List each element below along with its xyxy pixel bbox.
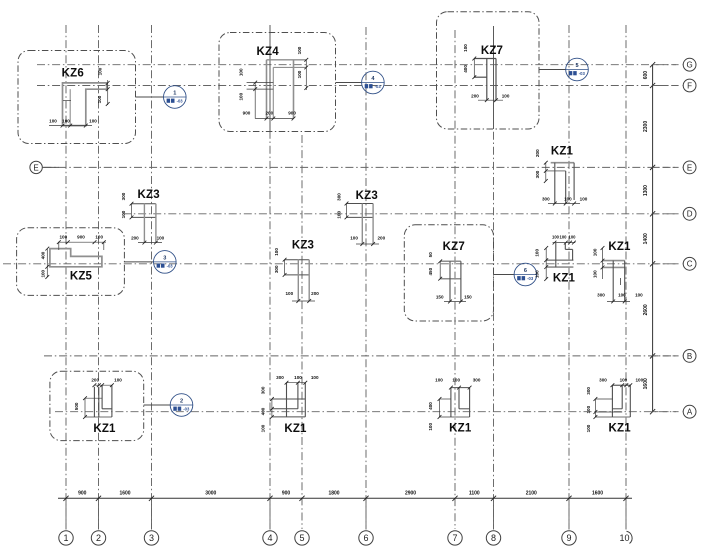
- svg-text:200: 200: [131, 235, 139, 240]
- svg-text:-03: -03: [183, 406, 190, 411]
- svg-text:100: 100: [435, 378, 443, 383]
- svg-text:300: 300: [276, 375, 284, 380]
- svg-text:1400: 1400: [643, 233, 649, 244]
- svg-text:KZ1: KZ1: [284, 423, 307, 435]
- svg-text:100: 100: [114, 378, 122, 383]
- svg-text:7: 7: [452, 533, 457, 543]
- svg-text:8: 8: [491, 533, 496, 543]
- svg-text:2600: 2600: [643, 304, 649, 315]
- svg-text:200: 200: [265, 111, 273, 116]
- svg-text:2900: 2900: [405, 490, 416, 496]
- svg-text:2300: 2300: [643, 121, 649, 132]
- svg-text:100: 100: [350, 235, 358, 240]
- svg-text:400: 400: [261, 407, 266, 415]
- svg-text:300: 300: [586, 387, 591, 395]
- svg-text:100: 100: [294, 375, 302, 380]
- svg-text:100: 100: [535, 270, 540, 278]
- svg-text:300: 300: [473, 378, 481, 383]
- svg-text:100: 100: [157, 235, 165, 240]
- svg-text:100: 100: [239, 68, 244, 76]
- svg-text:-03: -03: [167, 263, 174, 268]
- svg-text:1600: 1600: [643, 378, 649, 389]
- svg-text:2100: 2100: [526, 490, 537, 496]
- svg-text:500: 500: [74, 402, 79, 410]
- svg-text:100: 100: [593, 270, 598, 278]
- svg-text:100: 100: [618, 292, 626, 297]
- svg-text:300: 300: [535, 170, 540, 178]
- svg-text:100: 100: [97, 95, 102, 103]
- svg-text:-03: -03: [527, 276, 534, 281]
- svg-text:150: 150: [436, 295, 444, 300]
- svg-text:900: 900: [288, 111, 296, 116]
- svg-text:100: 100: [239, 92, 244, 100]
- svg-text:300: 300: [597, 292, 605, 297]
- svg-text:100: 100: [121, 210, 126, 218]
- svg-text:100: 100: [89, 118, 97, 123]
- svg-text:100: 100: [452, 378, 460, 383]
- svg-text:E: E: [687, 163, 692, 172]
- svg-text:200: 200: [91, 378, 99, 383]
- svg-text:KZ1: KZ1: [608, 241, 631, 253]
- svg-text:100: 100: [261, 424, 266, 432]
- svg-text:450: 450: [428, 267, 433, 275]
- svg-text:100: 100: [274, 248, 279, 256]
- svg-text:1600: 1600: [119, 490, 130, 496]
- svg-text:KZ7: KZ7: [443, 241, 465, 253]
- svg-text:C: C: [687, 260, 693, 269]
- svg-text:B: B: [687, 352, 692, 361]
- svg-text:100: 100: [297, 46, 302, 54]
- svg-text:4: 4: [267, 533, 272, 543]
- svg-text:F: F: [687, 81, 692, 90]
- svg-text:A: A: [687, 408, 693, 417]
- svg-text:100: 100: [635, 378, 643, 383]
- svg-text:100: 100: [41, 269, 46, 277]
- svg-text:900: 900: [243, 111, 251, 116]
- svg-text:KZ1: KZ1: [609, 423, 632, 435]
- svg-text:100: 100: [580, 196, 588, 201]
- svg-text:100: 100: [59, 235, 67, 240]
- svg-text:50: 50: [428, 252, 433, 258]
- svg-text:100: 100: [635, 292, 643, 297]
- svg-text:300: 300: [336, 193, 341, 201]
- svg-text:KZ1: KZ1: [553, 273, 576, 285]
- svg-text:KZ1: KZ1: [449, 423, 472, 435]
- svg-text:100: 100: [552, 235, 560, 240]
- svg-text:9: 9: [566, 533, 571, 543]
- svg-text:100: 100: [593, 248, 598, 256]
- svg-text:3: 3: [163, 256, 166, 262]
- svg-text:KZ3: KZ3: [292, 240, 314, 252]
- svg-text:100: 100: [560, 235, 568, 240]
- svg-text:1800: 1800: [328, 490, 339, 496]
- svg-text:200: 200: [311, 291, 319, 296]
- svg-text:150: 150: [464, 295, 472, 300]
- svg-text:100: 100: [586, 424, 591, 432]
- svg-text:100: 100: [95, 235, 103, 240]
- svg-text:100: 100: [586, 405, 591, 413]
- svg-text:100: 100: [463, 44, 468, 52]
- svg-text:E: E: [33, 163, 38, 172]
- svg-text:KZ5: KZ5: [70, 271, 93, 283]
- svg-text:100: 100: [62, 118, 70, 123]
- svg-text:G: G: [686, 61, 692, 70]
- svg-text:400: 400: [463, 65, 468, 73]
- svg-text:KZ6: KZ6: [62, 68, 84, 80]
- svg-text:5: 5: [575, 63, 578, 69]
- svg-text:600: 600: [643, 71, 649, 80]
- svg-text:200: 200: [471, 94, 479, 99]
- svg-text:1300: 1300: [643, 185, 649, 196]
- svg-text:900: 900: [282, 490, 291, 496]
- svg-text:200: 200: [535, 149, 540, 157]
- svg-text:100: 100: [297, 70, 302, 78]
- svg-text:2: 2: [180, 399, 183, 405]
- svg-text:100: 100: [620, 378, 628, 383]
- svg-text:KZ3: KZ3: [138, 189, 160, 201]
- svg-text:3: 3: [149, 533, 154, 543]
- svg-text:3000: 3000: [205, 490, 216, 496]
- svg-text:1: 1: [63, 533, 68, 543]
- svg-text:1100: 1100: [469, 490, 480, 496]
- svg-text:KZ1: KZ1: [551, 146, 574, 158]
- svg-text:100: 100: [336, 211, 341, 219]
- svg-text:900: 900: [78, 490, 87, 496]
- svg-text:300: 300: [599, 378, 607, 383]
- svg-text:1: 1: [173, 91, 176, 97]
- svg-text:-03: -03: [579, 71, 586, 76]
- svg-text:100: 100: [502, 94, 510, 99]
- svg-text:KZ4: KZ4: [257, 46, 280, 58]
- svg-text:-03: -03: [177, 98, 184, 103]
- svg-text:10: 10: [619, 533, 629, 543]
- svg-text:KZ1: KZ1: [93, 423, 116, 435]
- svg-text:300: 300: [274, 265, 279, 273]
- svg-text:1600: 1600: [592, 490, 603, 496]
- svg-text:300: 300: [542, 196, 550, 201]
- svg-text:KZ3: KZ3: [356, 190, 378, 202]
- svg-text:100: 100: [569, 235, 577, 240]
- svg-text:KZ7: KZ7: [481, 45, 503, 57]
- svg-text:300: 300: [261, 386, 266, 394]
- svg-text:100: 100: [285, 291, 293, 296]
- svg-text:100: 100: [311, 375, 319, 380]
- svg-text:6: 6: [524, 268, 527, 274]
- svg-text:D: D: [687, 210, 693, 219]
- svg-text:100: 100: [535, 249, 540, 257]
- svg-text:900: 900: [77, 235, 85, 240]
- svg-text:5: 5: [299, 533, 304, 543]
- svg-text:100: 100: [564, 196, 572, 201]
- svg-text:6: 6: [363, 533, 368, 543]
- svg-text:100: 100: [98, 67, 103, 75]
- svg-text:2: 2: [96, 533, 101, 543]
- svg-text:400: 400: [41, 251, 46, 259]
- svg-text:100: 100: [428, 423, 433, 431]
- svg-text:300: 300: [121, 192, 126, 200]
- svg-text:200: 200: [377, 235, 385, 240]
- svg-text:-03: -03: [375, 84, 382, 89]
- svg-text:400: 400: [428, 402, 433, 410]
- svg-text:100: 100: [49, 118, 57, 123]
